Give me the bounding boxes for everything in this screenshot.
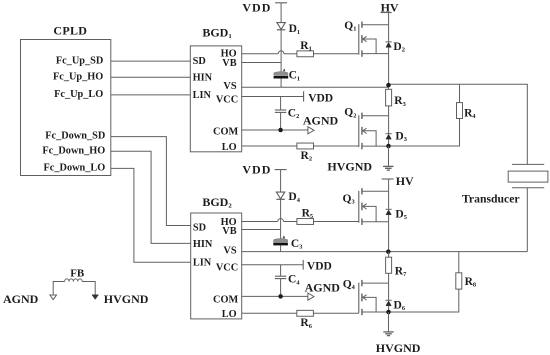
wire Fc_Up_HO to BGD1 HIN: [111, 76, 191, 78]
label Q2: [344, 107, 356, 120]
gate driver U1 BGD1 (block outline): [190, 46, 241, 152]
label BGD1: [202, 25, 231, 40]
label Transducer: [462, 192, 520, 205]
resistor R7: [386, 257, 392, 273]
diode D4 (bootstrap): [276, 192, 284, 199]
wire Q4 drain branch to source node: [388, 283, 390, 312]
svg-text:VDD: VDD: [307, 260, 332, 272]
diode D2 (body diode of Q1): [386, 42, 392, 47]
label D6: [394, 299, 406, 312]
svg-text:Q4: Q4: [343, 279, 356, 292]
label C4: [288, 274, 300, 287]
svg-text:LIN: LIN: [193, 90, 212, 101]
svg-text:Q1: Q1: [344, 20, 356, 33]
svg-text:COM: COM: [213, 295, 238, 306]
label D5: [395, 208, 407, 221]
svg-text:HV: HV: [396, 174, 414, 188]
pin label HO (BGD2): [221, 217, 237, 228]
label BGD2: [202, 195, 232, 210]
wire Q2 drain branch to source node: [388, 116, 390, 146]
svg-text:VCC: VCC: [216, 94, 238, 105]
label C1: [289, 70, 301, 83]
wire C3 to VS line (lower): [280, 245, 282, 251]
wire R8 to Q4 source node: [390, 289, 459, 312]
label AGND (bottom left): [3, 292, 39, 306]
svg-text:D3: D3: [395, 130, 407, 143]
pin label VB (BGD2): [222, 226, 236, 237]
label D4: [288, 191, 300, 204]
svg-text:Fc_Up_SD: Fc_Up_SD: [56, 55, 103, 66]
diode D5 (body diode of Q3): [386, 209, 392, 214]
junction node upper switch: [386, 83, 391, 88]
wire HO (BGD1) to R1 with crossover hop: [242, 51, 297, 54]
ground HVGND (upper): [383, 166, 393, 170]
wire VDD to D1 anode: [280, 3, 282, 23]
svg-text:R1: R1: [300, 40, 312, 53]
pin label Fc_Down_HO: [42, 146, 105, 157]
svg-text:FB: FB: [70, 267, 85, 279]
svg-text:AGND: AGND: [303, 113, 339, 127]
pin label VCC (BGD2): [216, 262, 238, 273]
label AGND (lower): [305, 280, 341, 294]
wire C1 to VS line: [280, 79, 282, 88]
wire Fc_Down_SD to BGD2 SD: [111, 137, 191, 226]
svg-text:VDD: VDD: [242, 0, 271, 14]
wire R4 to Q2 source node: [390, 119, 460, 147]
svg-text:C2: C2: [288, 108, 300, 121]
svg-text:C4: C4: [288, 274, 300, 287]
svg-text:HVGND: HVGND: [327, 160, 372, 174]
power HV (top rail): [381, 1, 399, 15]
label D2: [393, 41, 405, 54]
svg-text:VS: VS: [223, 246, 236, 257]
IC CPLD (block outline): [21, 40, 111, 176]
resistor R5: [297, 219, 314, 225]
svg-text:COM: COM: [213, 127, 238, 138]
svg-text:Q2: Q2: [344, 107, 356, 120]
wire HV to Q3 drain / D5 branch: [388, 179, 390, 209]
svg-text:VB: VB: [222, 58, 236, 69]
wire transducer bottom to lower switch node: [526, 188, 528, 252]
svg-text:HIN: HIN: [193, 239, 213, 250]
wire FB left to AGND: [53, 282, 64, 296]
junction node lower switch: [386, 249, 391, 254]
svg-text:C3: C3: [291, 238, 303, 251]
wire HV to Q1 drain / D2 branch: [388, 13, 390, 42]
wire Q2 source to HVGND: [388, 146, 390, 166]
label R3: [394, 95, 406, 108]
svg-text:VS: VS: [223, 81, 236, 92]
label HVGND (lower): [376, 341, 421, 355]
wire R2 to Q2 gate: [314, 145, 359, 147]
svg-text:BGD1: BGD1: [202, 25, 231, 40]
svg-text:SD: SD: [193, 56, 206, 67]
resistor R6: [297, 310, 314, 316]
svg-text:LO: LO: [222, 142, 237, 153]
inductor FB (ferrite bead): [65, 279, 83, 282]
svg-text:D2: D2: [393, 41, 405, 54]
pin label Fc_Up_LO: [54, 89, 103, 100]
svg-text:R6: R6: [300, 317, 312, 330]
pin label VCC (BGD1): [216, 94, 238, 105]
pin label LIN (BGD1): [193, 90, 212, 101]
svg-text:VDD: VDD: [308, 93, 333, 105]
capacitor C2: [275, 97, 286, 131]
label D1: [289, 23, 301, 36]
wire COM (BGD2) to AGND: [242, 295, 308, 297]
label Q1: [344, 20, 356, 33]
svg-text:R8: R8: [465, 276, 477, 289]
wire VCC (BGD1) to VDD tap: [242, 96, 304, 98]
label CPLD: [53, 24, 87, 38]
pin label SD (BGD1): [193, 56, 206, 67]
pin label HIN (BGD1): [193, 73, 213, 84]
junction node Q2 source: [386, 144, 391, 149]
svg-text:AGND: AGND: [3, 292, 39, 306]
pin label VS (BGD1): [223, 81, 236, 92]
svg-text:VB: VB: [222, 226, 236, 237]
wire R7 to Q4 drain: [388, 273, 390, 283]
pin label LO (BGD1): [222, 142, 237, 153]
label R6: [300, 317, 312, 330]
svg-text:Fc_Down_SD: Fc_Down_SD: [45, 131, 105, 142]
svg-text:SD: SD: [193, 223, 206, 234]
pin label VB (BGD1): [222, 58, 236, 69]
label AGND (upper): [303, 113, 339, 127]
ground HVGND (lower): [383, 332, 393, 336]
pin label COM (BGD2): [213, 295, 238, 306]
wire VDD to D4 anode: [280, 170, 282, 193]
resistor R2: [297, 143, 314, 149]
pin label SD (BGD2): [193, 223, 206, 234]
power VDD (top rail): [242, 0, 287, 14]
transistor Q3 (N-MOSFET): [359, 188, 389, 225]
svg-text:Fc_Down_HO: Fc_Down_HO: [42, 146, 105, 157]
transistor Q2 (N-MOSFET): [359, 113, 389, 150]
wire lower switch node to R8: [458, 252, 460, 273]
label Q4: [343, 279, 356, 292]
junction COM1-C2: [278, 128, 283, 133]
wire FB right to HVGND: [82, 282, 95, 295]
power HV (lower rail): [382, 174, 414, 188]
transistor Q1 (N-MOSFET): [359, 22, 389, 57]
capacitor C3 (polarized bootstrap): [273, 235, 288, 245]
label R8: [465, 276, 477, 289]
wire VCC (BGD2) to VDD tap: [242, 264, 304, 266]
wire VS (BGD1) to switch node: [242, 86, 388, 88]
capacitor C1 (polarized bootstrap): [274, 68, 289, 78]
ground AGND (open triangle, FB left): [50, 295, 57, 300]
wire R1 to Q1 gate: [314, 53, 359, 55]
label C2: [288, 108, 300, 121]
wire R3 to Q2 drain: [388, 106, 390, 116]
pin label LIN (BGD2): [193, 258, 212, 269]
junction node Q4 source: [386, 310, 391, 315]
pin label Fc_Up_SD: [56, 55, 103, 66]
pin label Fc_Down_SD: [45, 131, 105, 142]
wire switch node to R4: [459, 84, 461, 102]
diode D6 (body diode of Q4): [386, 300, 392, 305]
ground AGND (open arrow, BGD1 COM): [308, 127, 314, 134]
label FB: [70, 267, 85, 279]
svg-text:Fc_Up_LO: Fc_Up_LO: [54, 89, 103, 100]
wire COM (BGD1) to AGND: [242, 129, 308, 131]
label R5: [302, 207, 314, 220]
label HVGND (bottom left): [104, 292, 149, 306]
pin label HIN (BGD2): [193, 239, 213, 250]
wire Q4 source to HVGND: [388, 312, 390, 332]
svg-text:HVGND: HVGND: [104, 292, 149, 306]
wire lower switch node to R7: [388, 252, 390, 258]
capacitor C4: [275, 265, 286, 297]
wire LO (BGD1) to R2: [242, 145, 297, 147]
svg-text:C1: C1: [289, 70, 301, 83]
wire R6 to Q4 gate: [313, 312, 358, 314]
svg-text:R5: R5: [302, 207, 314, 220]
wire D4 cathode down to VB node and C3: [280, 199, 282, 239]
transistor Q4 (N-MOSFET): [359, 280, 389, 315]
svg-text:HIN: HIN: [193, 73, 213, 84]
wire switch node to R3: [388, 87, 390, 89]
pin label Fc_Up_HO: [53, 72, 103, 83]
svg-text:D1: D1: [289, 23, 301, 36]
power VDD tap (BGD2 VCC): [303, 260, 332, 273]
label Q3: [343, 193, 355, 206]
ground AGND (open arrow, BGD2 COM): [308, 293, 314, 300]
junction COM2-C4: [278, 294, 283, 299]
diode D1 (bootstrap): [277, 23, 285, 30]
wire Fc_Up_LO to BGD1 LIN: [111, 94, 191, 96]
wire VS (BGD2) switch node line: [242, 251, 528, 253]
pin label Fc_Down_LO: [44, 163, 106, 174]
label R1: [300, 40, 312, 53]
wire Fc_Down_HO to BGD2 HIN: [111, 151, 191, 243]
wire Fc_Down_LO to BGD2 LIN: [111, 168, 191, 262]
svg-text:LO: LO: [222, 309, 237, 320]
resistor R1: [297, 51, 314, 57]
svg-text:R4: R4: [464, 107, 476, 120]
svg-text:D5: D5: [395, 208, 407, 221]
svg-text:Fc_Up_HO: Fc_Up_HO: [53, 72, 103, 83]
pin label LO (BGD2): [222, 309, 237, 320]
svg-text:VCC: VCC: [216, 262, 238, 273]
svg-text:Fc_Down_LO: Fc_Down_LO: [44, 163, 106, 174]
svg-text:BGD2: BGD2: [202, 195, 232, 210]
transducer XT1 (piezo): [508, 164, 548, 187]
wire R5 to Q3 gate: [314, 221, 359, 223]
svg-text:R2: R2: [301, 150, 313, 163]
pin label VS (BGD2): [223, 246, 236, 257]
power VDD tap (BGD1 VCC): [304, 91, 334, 104]
gate driver U2 BGD2 (block outline): [191, 213, 242, 319]
resistor R8: [456, 273, 462, 289]
svg-text:Transducer: Transducer: [462, 192, 520, 205]
svg-text:Q3: Q3: [343, 193, 355, 206]
svg-text:R3: R3: [394, 95, 406, 108]
svg-text:D6: D6: [394, 299, 406, 312]
svg-text:VDD: VDD: [242, 163, 271, 177]
wire VB pin to node: [242, 62, 281, 64]
wire D5 anode down to lower switch node: [388, 215, 390, 250]
svg-text:R7: R7: [395, 265, 407, 278]
pin label COM (BGD1): [213, 127, 238, 138]
svg-text:AGND: AGND: [305, 280, 341, 294]
label D3: [395, 130, 407, 143]
svg-text:D4: D4: [288, 191, 300, 204]
label R2: [301, 150, 313, 163]
resistor R4: [457, 103, 463, 119]
wire D2 anode down to switch node: [388, 47, 390, 83]
wire VB pin to node (BGD2): [242, 229, 281, 231]
label R4: [464, 107, 476, 120]
wire LO (BGD2) to R6: [242, 312, 297, 314]
resistor R3: [386, 89, 392, 106]
svg-text:LIN: LIN: [193, 258, 212, 269]
svg-text:HVGND: HVGND: [376, 341, 421, 355]
wire switch node to transducer (upper): [388, 84, 528, 164]
label C3: [291, 238, 303, 251]
diode D3 (body diode of Q2): [386, 134, 392, 139]
ground HVGND (filled triangle, FB right): [92, 295, 99, 300]
svg-text:CPLD: CPLD: [53, 24, 87, 38]
label R7: [395, 265, 407, 278]
power VDD (lower rail): [242, 163, 286, 177]
wire D1 cathode down to VB node and C1: [280, 30, 282, 72]
label HVGND (upper): [327, 160, 372, 174]
pin label HO (BGD1): [221, 49, 237, 60]
wire HO (BGD2) to R5 with crossover hop: [242, 219, 297, 222]
wire Fc_Up_SD to BGD1 SD: [111, 60, 191, 62]
